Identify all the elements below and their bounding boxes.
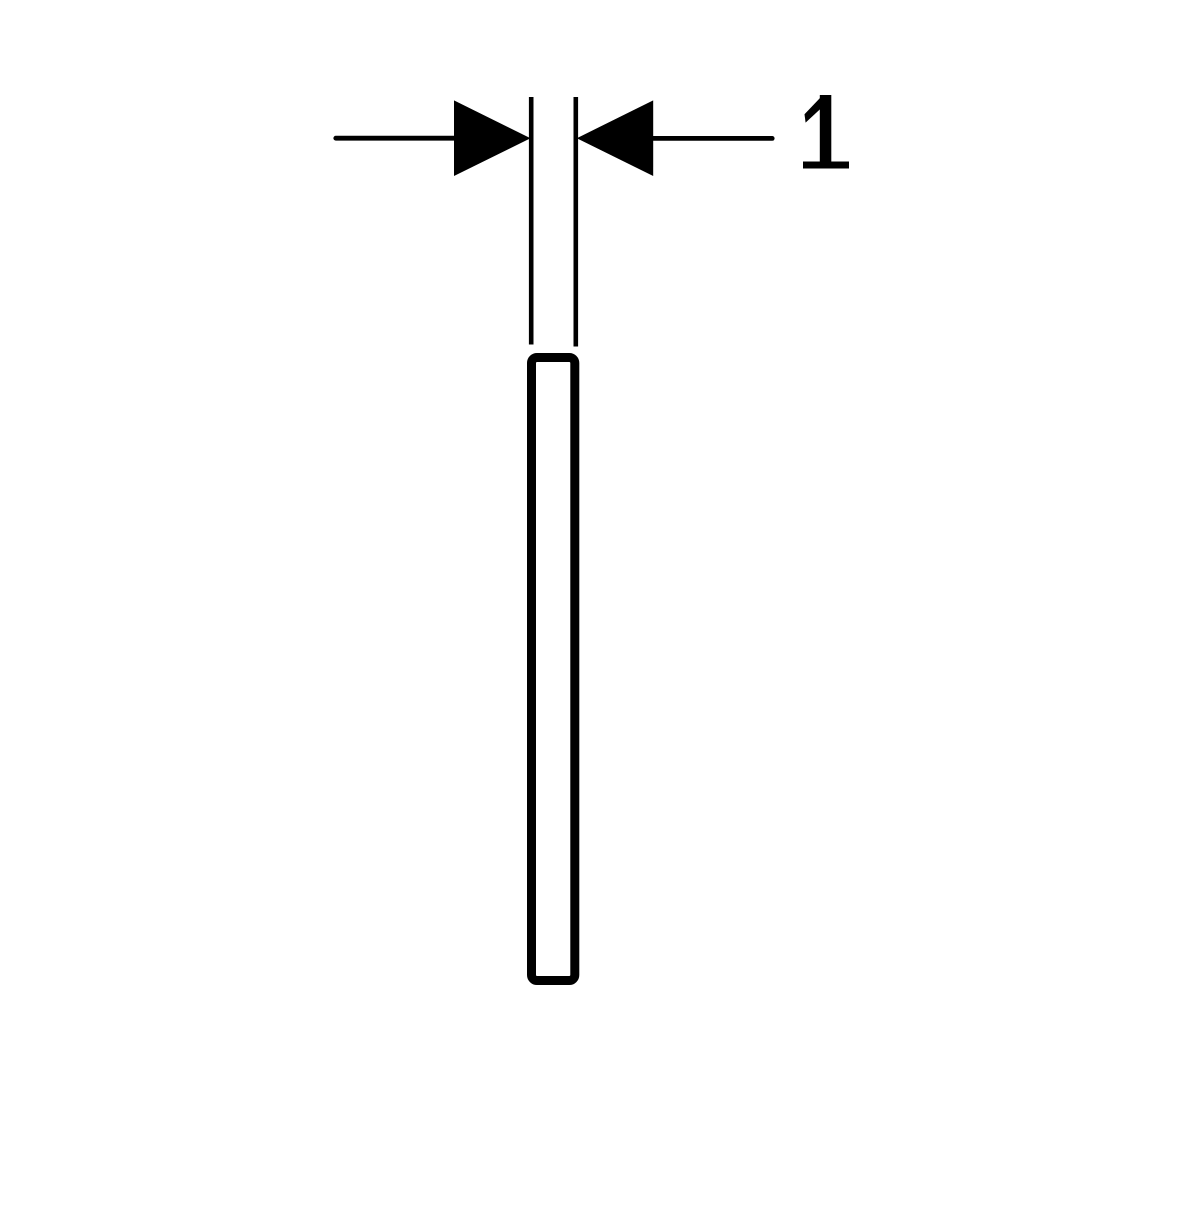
dimension leader line left — [336, 136, 458, 141]
extension line right — [573, 97, 578, 347]
dimension leader line right — [650, 136, 772, 141]
plate outline (side view rectangle) — [532, 358, 575, 981]
extension line left — [529, 97, 534, 345]
dimension arrowhead left (points right) — [454, 100, 531, 176]
dimension arrowhead right (points left) — [577, 100, 653, 176]
label 1 (stem and foot) — [803, 95, 849, 169]
label 1 (flag) — [805, 95, 824, 123]
